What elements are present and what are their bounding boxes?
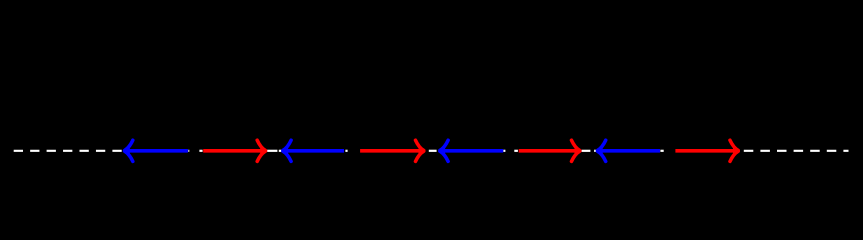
axis dash fragment in gap 4 <box>660 150 663 152</box>
red right arrow 2 shaft <box>360 149 423 153</box>
dashed axis left segment <box>14 150 123 152</box>
axis dash fragments in gap 1 <box>188 150 189 152</box>
blue left arrow 3 shaft <box>441 149 504 153</box>
red right arrow 4 head <box>730 140 739 161</box>
blue left arrow 1 head <box>123 140 132 161</box>
red right arrow 4 shaft <box>675 149 737 153</box>
blue left arrow 2 head <box>282 140 291 161</box>
axis dash fragment in gap 2 <box>345 150 347 152</box>
red right arrow 3 head <box>572 140 581 161</box>
red right arrow 1 head <box>257 140 266 161</box>
blue left arrow 3 head <box>439 140 448 161</box>
blue left arrow 4 head <box>596 140 605 161</box>
axis dash fragment at stable node 2 <box>429 150 437 152</box>
red right arrow 3 shaft <box>519 149 579 153</box>
blue left arrow 2 shaft <box>284 149 345 153</box>
red right arrow 2 head <box>416 140 425 161</box>
axis dash fragments at stable node 1 <box>267 150 277 152</box>
blue left arrow 1 shaft <box>125 149 188 153</box>
blue left arrow 4 shaft <box>598 149 660 153</box>
axis dash fragments in gap 3 <box>503 150 505 152</box>
axis dash fragments at stable node 3 <box>582 150 591 152</box>
red right arrow 1 shaft <box>203 149 265 153</box>
dashed axis right segment <box>744 150 849 152</box>
